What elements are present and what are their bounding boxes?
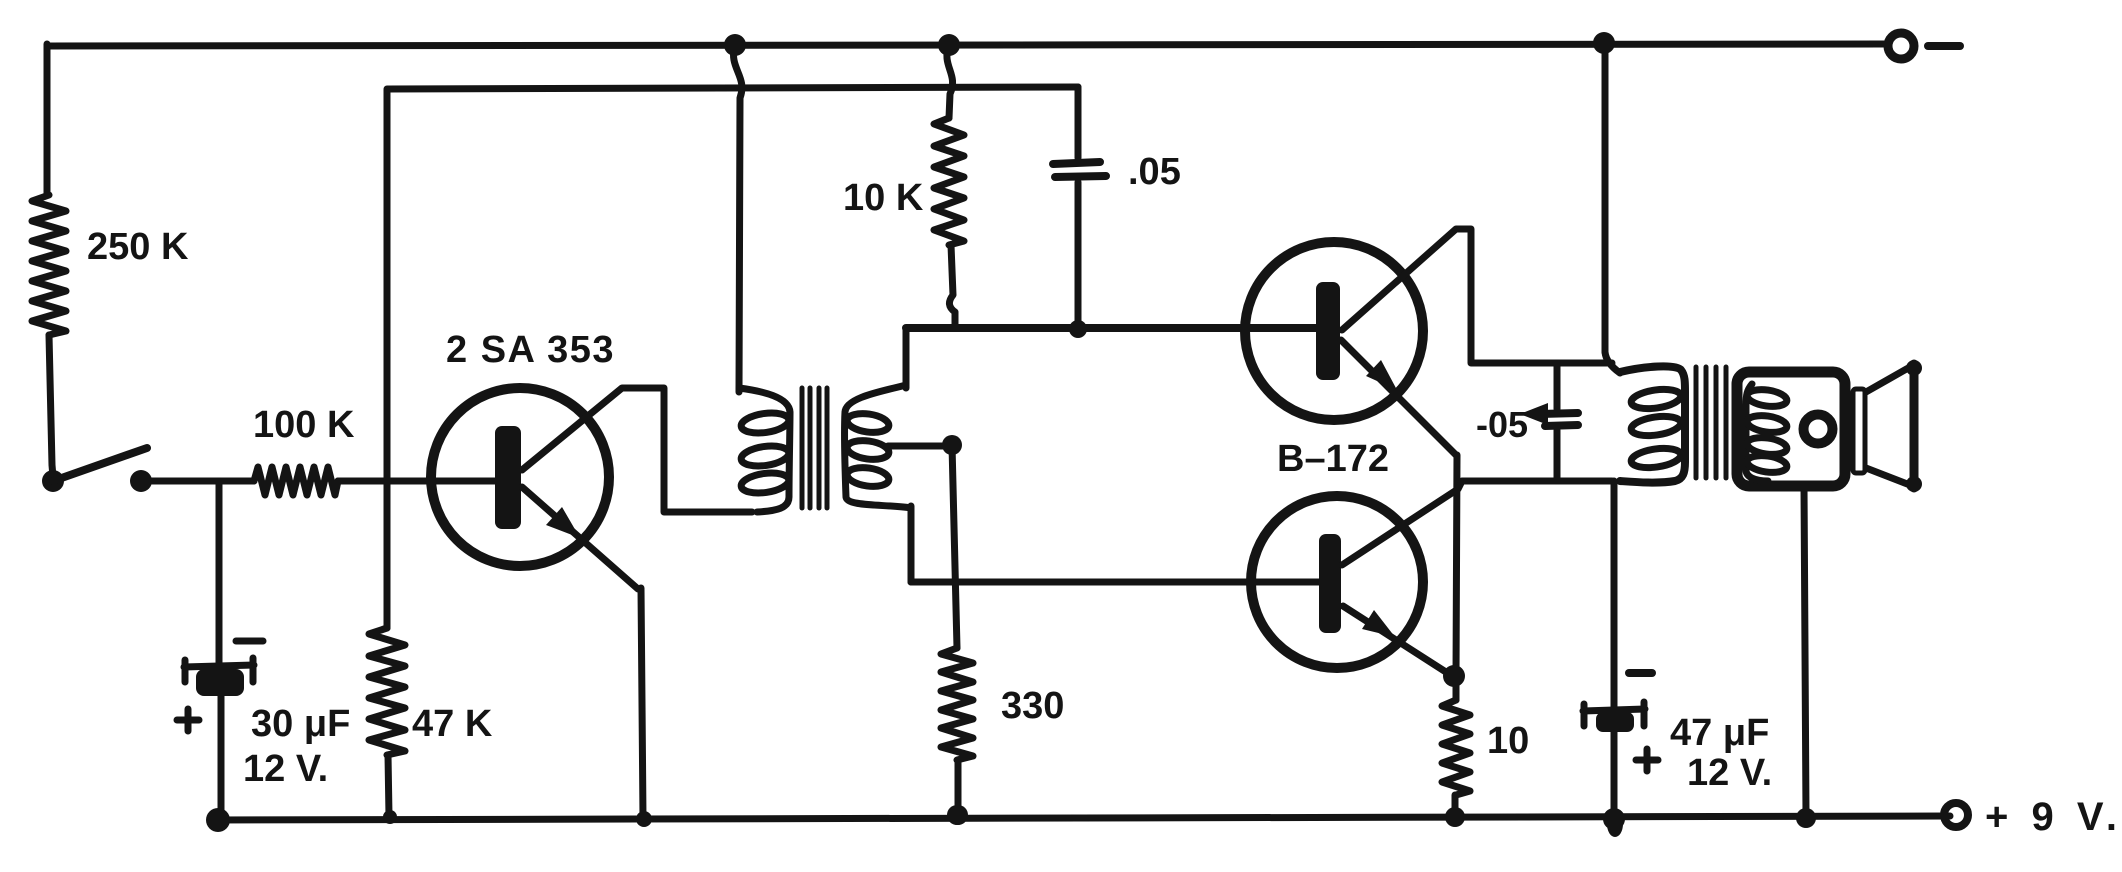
svg-text:100 K: 100 K [253,404,355,446]
svg-text:47 μF: 47 μF [1670,712,1769,754]
svg-text:2 SA 353: 2 SA 353 [446,329,615,371]
svg-text:30 μF: 30 μF [251,703,350,745]
svg-text:47 K: 47 K [412,703,493,745]
svg-text:-05: -05 [1476,404,1528,445]
svg-text:B–172: B–172 [1277,438,1389,480]
svg-text:.05: .05 [1128,151,1181,193]
svg-text:330: 330 [1001,685,1064,727]
svg-text:250 K: 250 K [87,226,189,268]
svg-text:12 V.: 12 V. [243,748,328,790]
svg-text:10 K: 10 K [843,177,924,219]
svg-text:+ 9 V.: + 9 V. [1985,795,2122,839]
svg-text:12 V.: 12 V. [1687,752,1772,794]
svg-text:10: 10 [1487,720,1529,762]
